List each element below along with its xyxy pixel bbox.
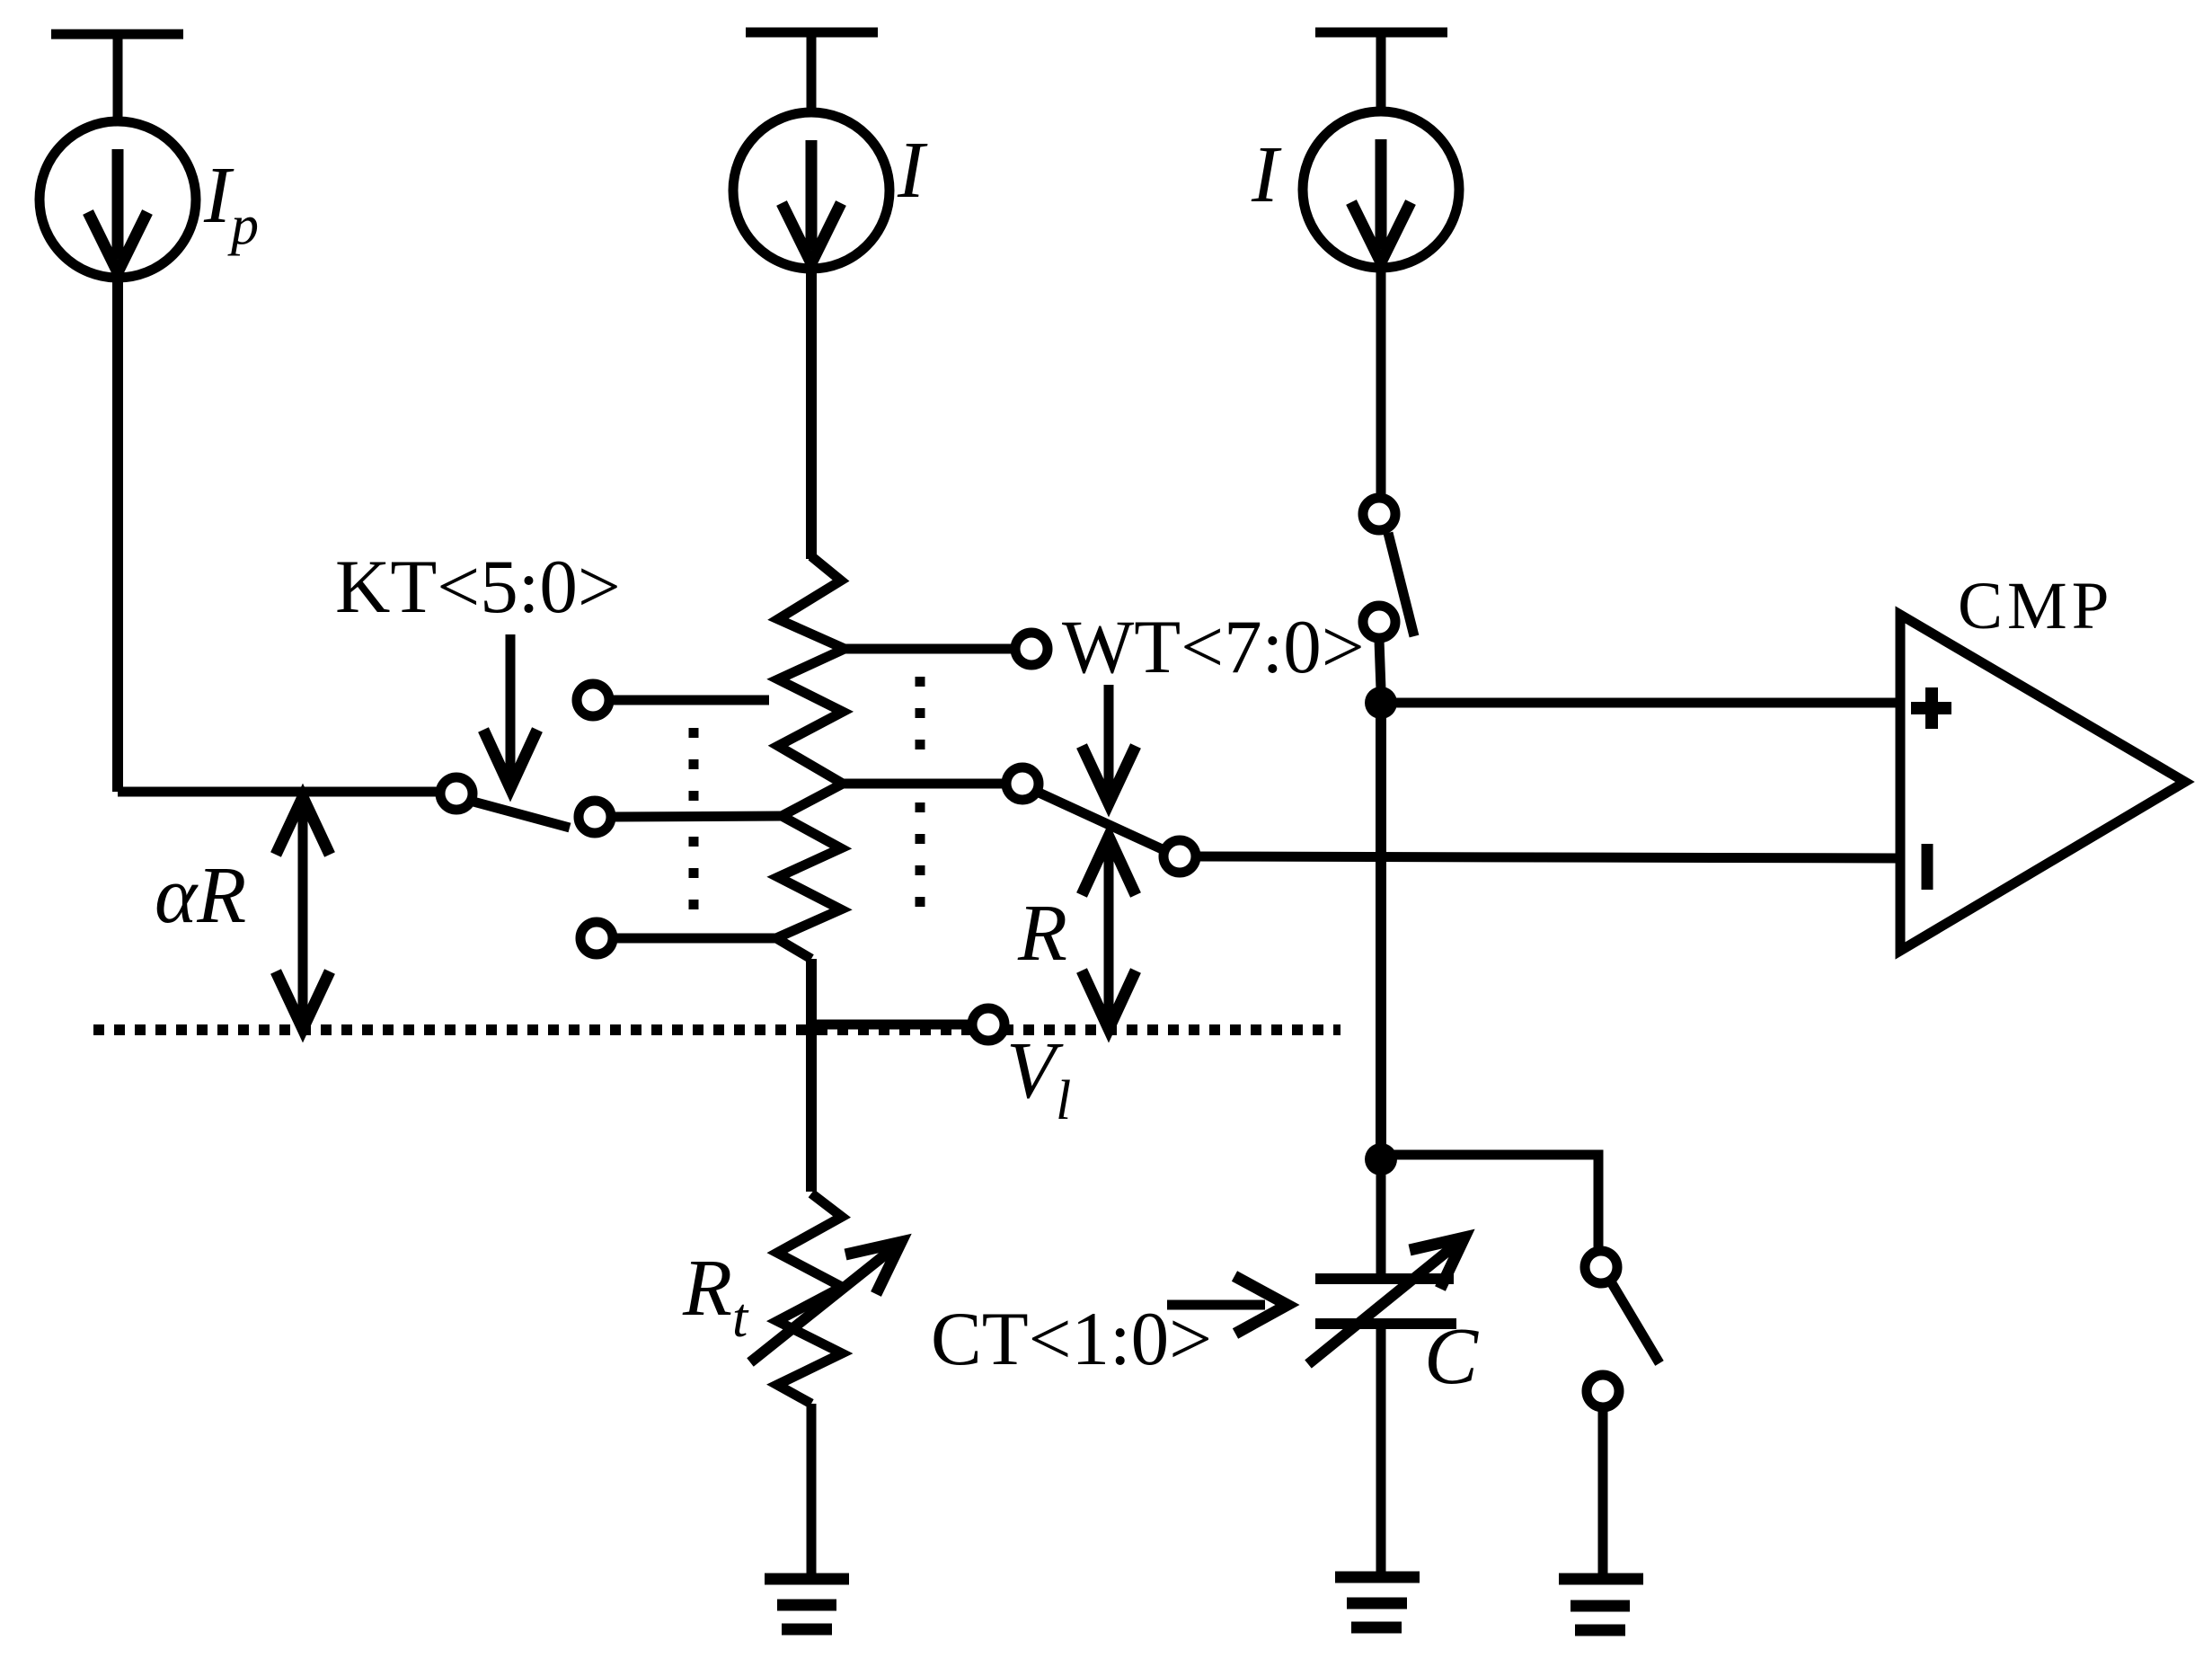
svg-text:R: R bbox=[1017, 889, 1067, 978]
svg-text:αR: αR bbox=[155, 851, 246, 940]
tap wire WT top bbox=[843, 644, 1015, 654]
supply rail (top right) bbox=[1315, 32, 1447, 115]
wire source to ladder bbox=[806, 269, 817, 559]
switch WT throw contact bbox=[1164, 840, 1196, 873]
dotted baseline bbox=[93, 1024, 1340, 1035]
wire junction to reset switch bbox=[1381, 1155, 1598, 1249]
arrow R extent bbox=[1082, 837, 1136, 1029]
arrow CT control bbox=[1167, 1276, 1287, 1334]
current source Ip bbox=[40, 121, 196, 278]
throw contact 3 bbox=[580, 922, 776, 954]
ground (below C) bbox=[1335, 1577, 1420, 1627]
resistor ladder bbox=[776, 556, 845, 959]
ground (below Rt) bbox=[765, 1579, 849, 1629]
switch (charge) bottom contact bbox=[1363, 606, 1395, 689]
wire source to switch bbox=[1376, 269, 1386, 494]
svg-text:C: C bbox=[1424, 1312, 1479, 1401]
current source I (middle) bbox=[733, 112, 889, 269]
CMP minus marker bbox=[1922, 844, 1933, 890]
switch (reset) bottom contact bbox=[1587, 1375, 1619, 1579]
tap wire Vl bbox=[811, 1020, 970, 1030]
wire capacitor to ground bbox=[1376, 1324, 1386, 1577]
node junction (CMP plus) bbox=[1365, 687, 1397, 719]
current source I (right) bbox=[1303, 111, 1459, 268]
comparator CMP bbox=[1900, 615, 2185, 951]
arrow KT control bbox=[483, 634, 537, 788]
wire to CMP plus input bbox=[1381, 698, 1898, 708]
CMP plus marker bbox=[1911, 687, 1951, 729]
variable resistor Rt bbox=[750, 1193, 901, 1404]
dotted ellipsis (left column) bbox=[689, 728, 699, 913]
svg-text:I: I bbox=[1251, 130, 1282, 219]
dotted ellipsis (right column) bbox=[916, 677, 925, 908]
wire from Ip to KT switch pole bbox=[118, 278, 439, 792]
throw contact 2 bbox=[579, 801, 783, 833]
variable capacitor C bbox=[1308, 1237, 1464, 1364]
wire to CMP minus input bbox=[1194, 856, 1898, 858]
svg-text:WT<7:0>: WT<7:0> bbox=[1062, 605, 1365, 689]
wire Rt to ground bbox=[807, 1404, 817, 1578]
ground (below reset switch) bbox=[1559, 1579, 1643, 1630]
switch WT pole bbox=[843, 767, 1168, 852]
supply rail (top middle) bbox=[746, 32, 878, 117]
supply rail (top left) bbox=[51, 34, 183, 126]
terminal WT top bbox=[1015, 633, 1048, 665]
switch KT pole bbox=[440, 777, 570, 828]
wire junction down to C bbox=[1376, 703, 1386, 1159]
node junction (capacitor top) bbox=[1365, 1143, 1397, 1175]
throw contact 1 bbox=[577, 684, 769, 716]
wire junction to capacitor bbox=[1376, 1159, 1386, 1279]
terminal Vl bbox=[972, 1008, 1004, 1041]
switch (reset) top contact bbox=[1585, 1251, 1659, 1363]
arrow alphaR extent bbox=[276, 797, 330, 1029]
arrow WT control bbox=[1082, 685, 1136, 803]
switch (charge) top contact bbox=[1363, 498, 1414, 636]
wire ladder to Vl tap bbox=[806, 959, 817, 1192]
svg-text:CMP: CMP bbox=[1958, 569, 2113, 643]
svg-text:I: I bbox=[897, 126, 928, 215]
svg-text:KT<5:0>: KT<5:0> bbox=[335, 545, 621, 629]
